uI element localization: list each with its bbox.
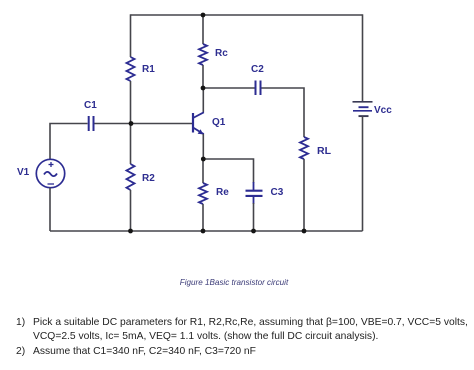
label C1	[84, 101, 97, 111]
label R1	[142, 65, 155, 75]
wire C1 to base node	[95, 123, 132, 125]
wire emitter node to Re	[202, 159, 204, 183]
resistor RL	[300, 137, 308, 159]
node bottom R2	[128, 229, 133, 234]
wire top rail	[131, 14, 363, 16]
label V1	[17, 168, 29, 178]
wire Rc branch from top rail	[202, 15, 204, 44]
node bottom Re	[201, 229, 206, 234]
transistor Q1	[193, 112, 204, 134]
capacitor C3 top lead	[253, 182, 255, 190]
label Vcc	[374, 106, 392, 116]
AC source V1	[36, 159, 64, 187]
wire left branch upper (top rail to R1)	[130, 14, 132, 57]
node collector	[201, 86, 206, 91]
wire bottom rail	[50, 230, 363, 232]
wire C3 lead to bottom rail	[253, 203, 255, 231]
label R2	[142, 174, 155, 184]
label C2	[251, 65, 264, 75]
question line 2	[33, 332, 378, 342]
label Q1	[212, 118, 225, 128]
capacitor C2	[256, 81, 261, 96]
capacitor C1	[89, 116, 94, 131]
question line 1	[16, 318, 25, 328]
wire Vcc branch bottom	[362, 116, 364, 231]
wire emitter node to C3 branch	[203, 159, 253, 183]
wire base node to Q1 base	[131, 123, 193, 125]
label C3	[271, 188, 284, 198]
wire RL to bottom rail	[303, 159, 305, 231]
resistor Rc	[199, 44, 207, 65]
capacitor C3	[246, 191, 263, 196]
wire left branch lower (R2 to bottom rail)	[130, 190, 132, 231]
wire collector node to C2	[203, 87, 255, 89]
wire C3 to bottom rail	[253, 197, 255, 205]
question line 3	[16, 347, 25, 357]
label Rc	[215, 49, 228, 59]
wire V1 to C1	[50, 124, 88, 160]
resistor R2	[127, 164, 135, 190]
label RL	[317, 146, 331, 156]
node top rail / Rc	[201, 13, 206, 18]
resistor Re	[199, 183, 207, 204]
wire Rc to collector node	[202, 65, 204, 88]
wire collector node down to Q1	[202, 88, 204, 113]
caption	[0, 278, 471, 287]
wire Re to bottom rail	[202, 204, 204, 231]
wire V1 bottom to bottom rail	[49, 188, 51, 231]
node bottom RL	[302, 229, 307, 234]
wire left branch middle (R1 to R2)	[130, 81, 132, 164]
wire Q1 emitter down to emitter node	[202, 134, 204, 159]
node base junction	[129, 121, 134, 126]
label Re	[216, 188, 229, 198]
battery Vcc	[353, 102, 373, 116]
resistor R1	[127, 57, 135, 81]
wire C2 to RL branch	[262, 88, 305, 137]
node emitter	[201, 157, 206, 162]
wire Vcc branch top	[362, 14, 364, 102]
node bottom C3	[251, 229, 256, 234]
